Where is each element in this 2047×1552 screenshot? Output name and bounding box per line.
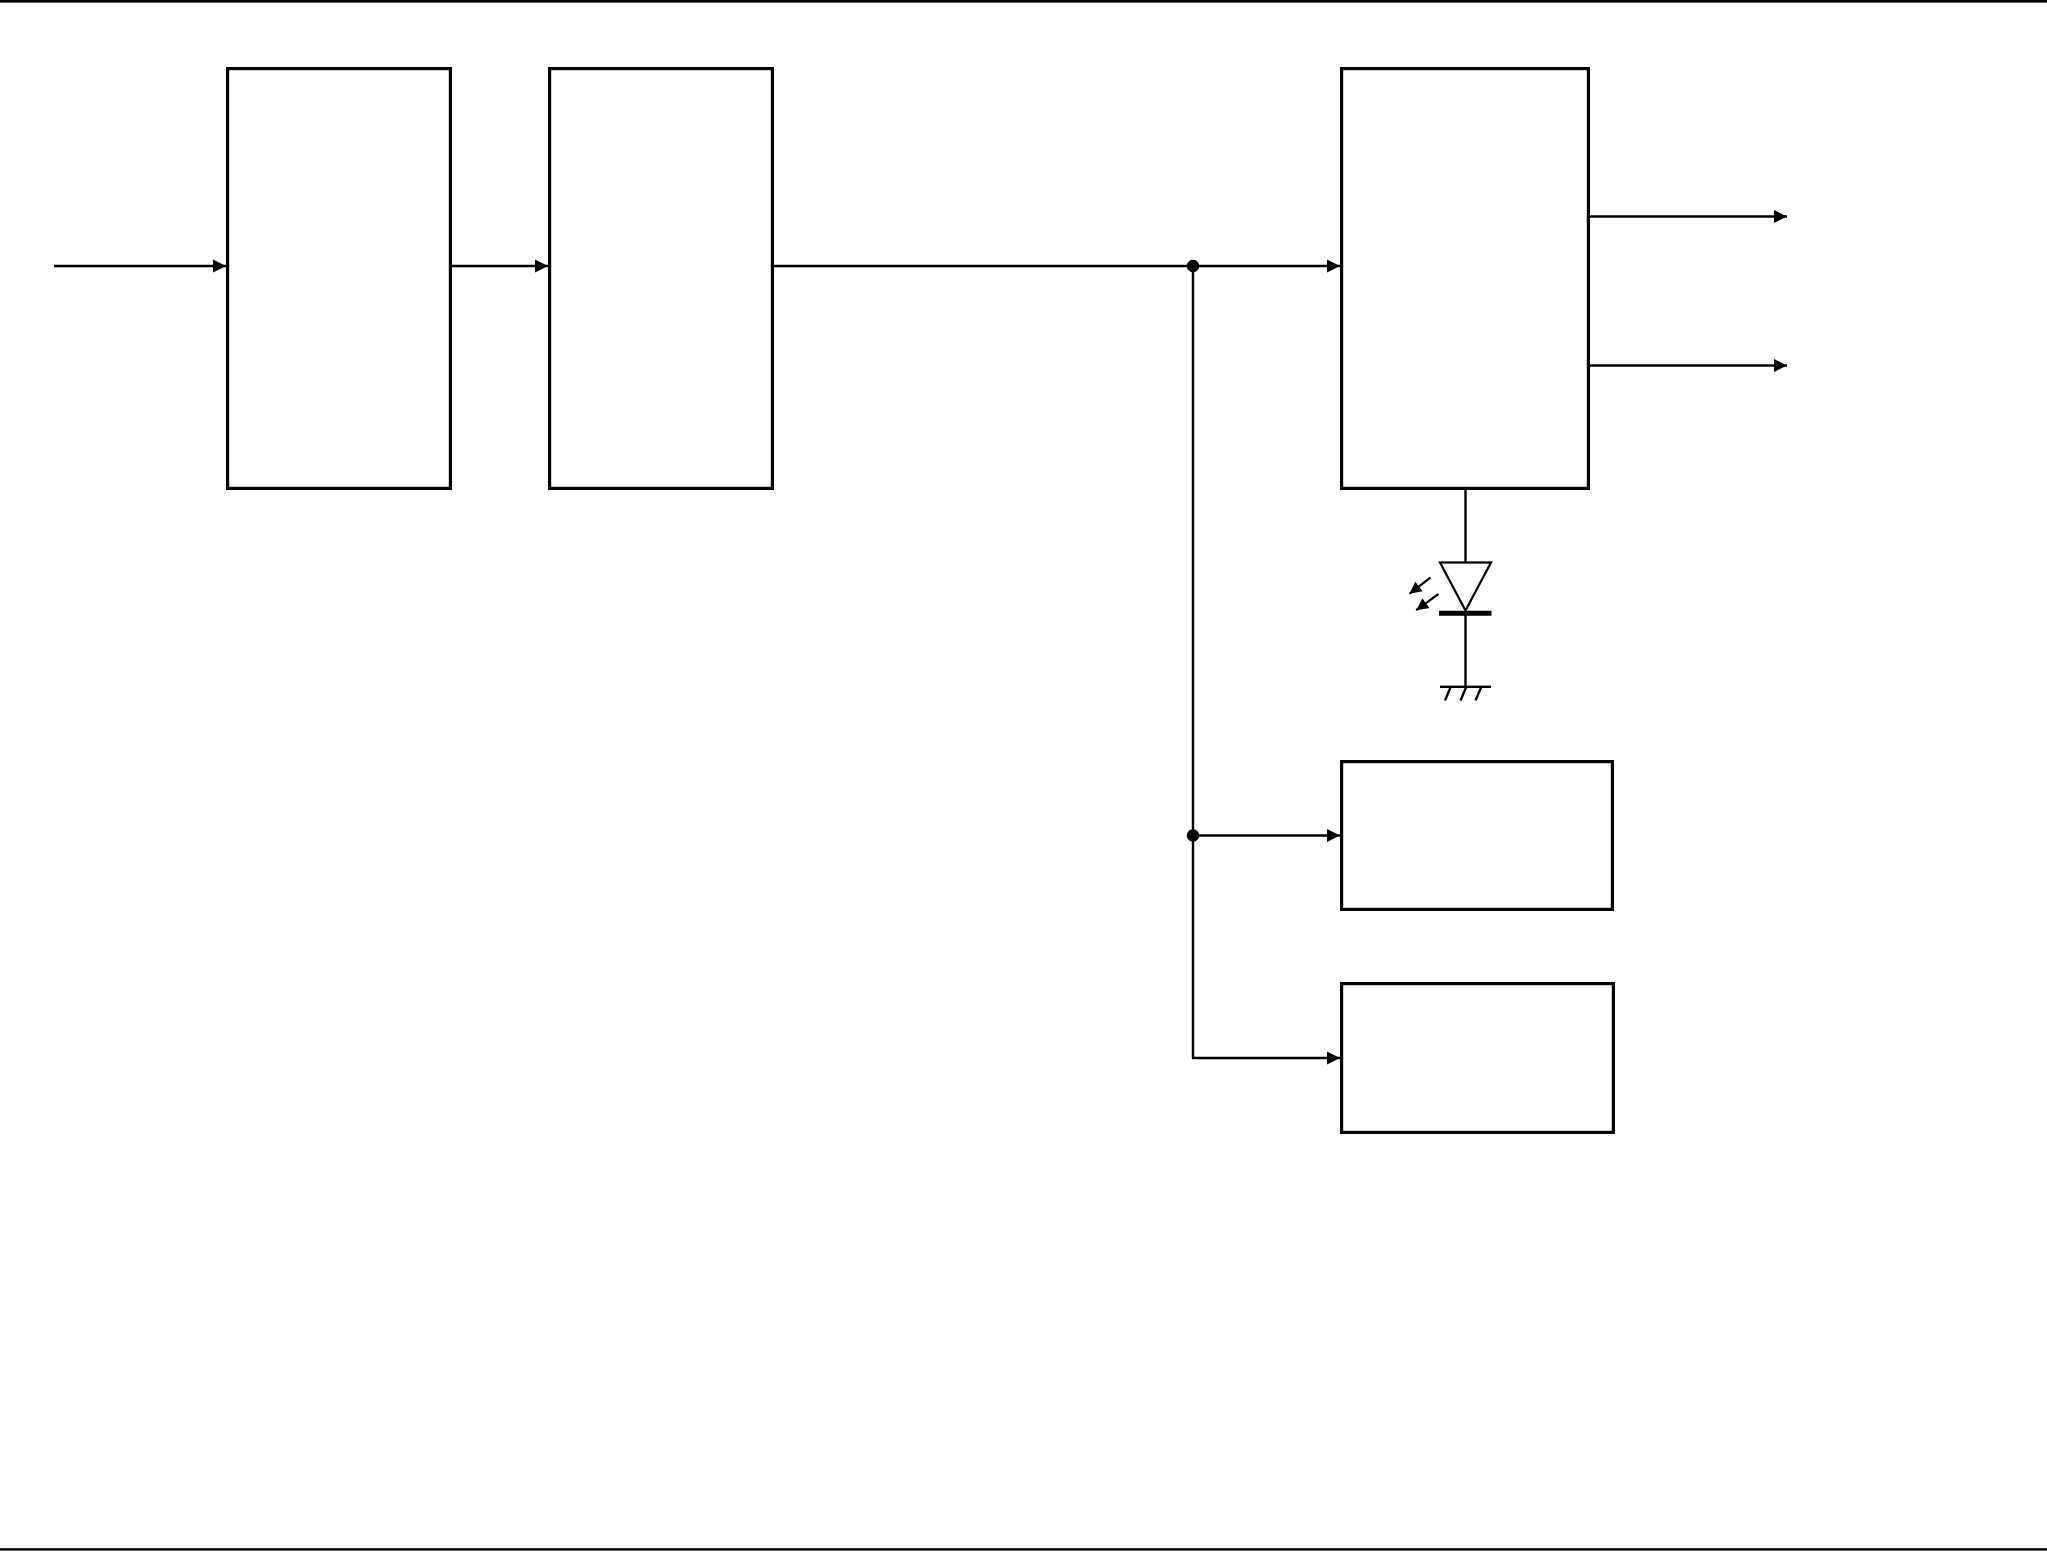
block B1 [228,69,451,489]
wire: U1 output 1 [1589,215,1787,217]
wire: U1 output 2 [1589,364,1787,366]
wire: U1 to LED anode [1464,489,1466,563]
wire: B2 output to IC U1 input [774,265,1340,267]
wire: input line into block B1 [54,265,226,267]
block B3 [1342,762,1613,910]
IC U1 (large block) [1342,69,1589,489]
LED light ray arrow 2 [1416,594,1438,610]
node junction 2 [1187,829,1199,841]
wire: B1 output to B2 input [452,265,548,267]
wire: vertical bus from junction 1 down to elbow [1192,266,1194,1058]
block B2 [550,69,773,489]
bottom page border line [0,1548,2047,1550]
wire: junction 2 to block B3 [1193,834,1340,836]
ground [1440,687,1491,701]
block B4 [1342,984,1614,1133]
node junction 1 [1187,260,1199,272]
top page border line [0,0,2047,3]
LED light ray arrow 1 [1410,578,1431,594]
LED D1 triangle [1440,563,1491,611]
LED D1 cathode bar [1439,611,1492,616]
wire: LED cathode to ground [1464,615,1466,687]
wire: elbow to block B4 [1192,1057,1340,1059]
